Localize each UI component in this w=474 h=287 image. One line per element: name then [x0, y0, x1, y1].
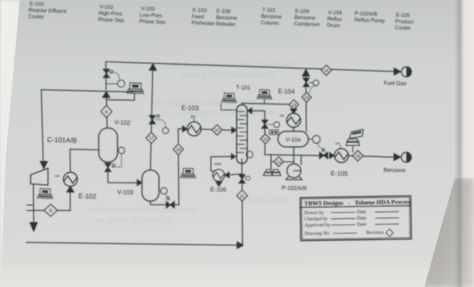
svg-text:Date: Date: [357, 223, 366, 228]
vessel V-102: [99, 128, 118, 162]
instrument circle on reflux valve: [274, 122, 280, 128]
wire: reboiler draw line from bottoms riser to E-106: [229, 174, 242, 175]
symbol: benzene off-page connector circle: [401, 152, 411, 162]
instrument circle at bottoms valve: [246, 176, 250, 180]
svg-text:V-103: V-103: [117, 189, 134, 196]
svg-text:E-103: E-103: [181, 105, 199, 113]
svg-text:Checked by: Checked by: [304, 217, 328, 222]
wire: V-103 overhead riser to fuel gas line: [150, 70, 152, 170]
instrument circle at V-104 right end: [312, 135, 320, 143]
svg-text:mps: mps: [214, 162, 221, 166]
node: arrow into E-106: [225, 172, 230, 178]
valve on benzene product line: [320, 152, 328, 158]
svg-text:Drawing No.: Drawing No.: [305, 232, 331, 237]
column T-101 trays: [237, 112, 248, 153]
console icon above E-105: [346, 129, 363, 152]
wire: diamond 9 to E-102 inlet: [57, 192, 70, 211]
wire: E-105 outlet to benzene off-page: [348, 156, 393, 157]
svg-text:Preheater: Preheater: [191, 20, 215, 27]
svg-text:lps: lps: [191, 114, 196, 118]
svg-text:17: 17: [149, 136, 154, 141]
node: arrow joining fuel gas header from V-104: [302, 69, 310, 76]
svg-text:E-104: E-104: [278, 88, 296, 96]
node: benzene off-page arrow: [394, 153, 401, 161]
svg-text:Condenser: Condenser: [294, 21, 320, 28]
console icon on overhead line: [257, 89, 272, 99]
compressor C-101A/B body: [31, 168, 48, 185]
wire: recycle gas header line A from V-102 top to compressor: [41, 90, 133, 162]
console icon left above column: [222, 93, 237, 103]
heat exchanger E-104: [287, 113, 301, 127]
svg-text:12: 12: [263, 137, 268, 142]
node: arrow down into E-104: [290, 109, 297, 114]
svg-text:14: 14: [276, 159, 281, 164]
wire: stub down to drivers: [270, 155, 272, 169]
valve on V-103 bottoms: [166, 202, 174, 208]
svg-text:19: 19: [304, 95, 309, 100]
valve PCV on line A vertical: [103, 69, 109, 77]
diamond stream 9: [44, 204, 57, 216]
wire: E-102 outlet up and right into V-102: [70, 149, 99, 172]
node: arrow into V-103 inlet: [137, 180, 142, 187]
svg-text:Fuel Gas: Fuel Gas: [384, 81, 407, 87]
console icon near V-103 bottoms riser: [180, 168, 195, 178]
instrument circle on riser valve: [163, 128, 169, 134]
svg-text:Date: Date: [357, 216, 366, 221]
column T-101 shell: [237, 105, 248, 164]
svg-text:16: 16: [324, 68, 329, 73]
svg-text:V-102: V-102: [114, 119, 131, 127]
wire: V-103 bottoms to riser junction: [150, 201, 178, 205]
vessel V-103: [142, 170, 159, 201]
svg-text:V-104: V-104: [286, 137, 301, 143]
wire: diamond 14 link line: [271, 161, 294, 163]
console icon under compressor: [37, 189, 53, 199]
svg-text:Cooler: Cooler: [28, 14, 44, 21]
diamond stream 15: [353, 151, 364, 162]
node: off-page arrow down bottom-left: [30, 222, 38, 231]
symbol: driver trapezoid pair under reflux line: [263, 170, 281, 176]
wire: line into diamond 9 from left edge: [27, 209, 44, 211]
diamond stream 16: [321, 65, 331, 75]
svg-text:cw: cw: [280, 113, 285, 117]
svg-text:Reflux Pump: Reflux Pump: [354, 17, 385, 24]
svg-text:15: 15: [355, 154, 360, 159]
svg-text:Phase Sep.: Phase Sep.: [139, 19, 167, 26]
diamond stream 8: [101, 105, 112, 117]
svg-text:C-101A/B: C-101A/B: [47, 137, 77, 145]
heat exchanger reboiler E-106: [213, 169, 225, 181]
svg-text:Approved by: Approved by: [305, 223, 331, 228]
wire: branch line A to console stub: [106, 94, 134, 101]
wire: reboiler vapor return to column: [211, 157, 232, 172]
node: feed arrow into T-101: [232, 127, 237, 133]
small level gauge box left of V-104: [269, 130, 278, 135]
wire: feed riser through diamond 18 up to E-103: [178, 129, 183, 205]
heat exchanger E-103: [187, 122, 201, 136]
wire: V-102 top riser through diamond 8: [105, 98, 108, 129]
svg-text:Feed: Feed: [192, 14, 204, 20]
svg-text:cw: cw: [335, 141, 340, 145]
valve on V-104 vapor riser: [303, 78, 309, 86]
wire: V-102 bottoms line: [108, 162, 137, 183]
node: arrow into E-103: [182, 126, 187, 132]
wire: toluene recycle down and along bottom: [27, 201, 243, 245]
svg-text:Phase Sep.: Phase Sep.: [98, 17, 126, 24]
instrument circle on vapor riser valve: [313, 80, 319, 86]
svg-text:8: 8: [105, 109, 108, 114]
instrument signal dashes valve to circle: [110, 72, 120, 80]
drum V-104: [278, 131, 308, 147]
heat exchanger E-105: [334, 149, 348, 163]
wire: left console elbow to column top: [221, 104, 237, 110]
svg-text:E-105: E-105: [331, 170, 349, 177]
console DCS icon on line A: [127, 83, 144, 94]
wire: compressor discharge down to off-page arrow: [32, 184, 34, 222]
svg-text:E-102: E-102: [78, 193, 96, 200]
svg-text:Revision: Revision: [366, 231, 384, 236]
node: arrow joining fuel gas header: [149, 63, 157, 70]
svg-text:E-106: E-106: [210, 187, 227, 193]
wire: column overhead line to E-104: [242, 103, 289, 104]
node: inlet arrow into compressor: [40, 161, 48, 169]
diamond stream 18: [173, 144, 183, 155]
svg-text:P-102A/B: P-102A/B: [281, 186, 306, 193]
header equipment labels: [28, 1, 414, 32]
diamond stream 12: [260, 134, 270, 144]
valve on V-102 bottoms: [105, 163, 111, 171]
svg-text:11: 11: [240, 193, 245, 198]
node: small arrow below E-106: [216, 182, 223, 187]
instrument circle LC on V-103: [161, 188, 167, 194]
wire: pump discharge riser: [300, 155, 302, 164]
wire: reflux line from riser to column: [252, 111, 265, 155]
diamond stream 10: [212, 125, 222, 135]
instrument circle LC on V-102: [118, 147, 124, 153]
wire: E-103 outlet to column feed: [201, 129, 232, 130]
wire: column bottoms down through valve to diamond 11: [241, 159, 243, 191]
svg-text:cw: cw: [55, 174, 60, 178]
wire: stub left of compressor discharge: [27, 204, 34, 206]
node: reflux arrow into column top right: [247, 108, 252, 114]
node: arrow of reboiler return into column: [231, 154, 236, 160]
node: fuel gas off-page arrow: [394, 68, 401, 76]
node: arrow up into E-102: [67, 186, 75, 192]
svg-text:Drawn by: Drawn by: [304, 211, 324, 216]
wire: E-104 outlet into V-104: [293, 127, 295, 131]
valve on V-103 overhead riser: [149, 116, 155, 124]
node: arrowhead at bottom line right end: [237, 242, 244, 249]
svg-text:10: 10: [215, 128, 220, 133]
diamond stream 11: [237, 190, 248, 201]
diamond stream 17: [146, 132, 157, 143]
svg-text:18: 18: [176, 147, 181, 152]
heat exchanger E-102: [63, 172, 77, 186]
svg-text:Reboiler: Reboiler: [216, 21, 236, 28]
wire: line A vertical through valve: [105, 62, 107, 90]
svg-text:Cooler: Cooler: [395, 25, 411, 32]
svg-text:13: 13: [291, 102, 296, 107]
svg-text:Drum: Drum: [327, 23, 341, 29]
wire: V-104 bottoms to pump P-102 suction: [293, 147, 295, 164]
svg-text:Column: Column: [261, 20, 280, 27]
wire: product line from reflux junction to E-105: [265, 155, 320, 156]
diamond stream 13: [289, 100, 299, 110]
valve on column bottoms: [239, 175, 245, 183]
wire: V-104 vapor riser to fuel gas header: [305, 76, 307, 132]
node: arrow joining line A from V-102: [102, 91, 110, 98]
diamond stream 14: [274, 157, 284, 167]
node: arrow into E-105: [329, 152, 334, 158]
svg-text:T-101: T-101: [236, 85, 251, 91]
instrument dashes V-103 LC to bottoms valve: [166, 194, 170, 201]
valve on reflux riser: [262, 120, 268, 128]
wire: console stub to overhead line: [263, 99, 265, 104]
wire: fuel gas header line B: [106, 62, 398, 72]
svg-text:9: 9: [49, 208, 52, 214]
instrument circle PIC near line A valve: [118, 80, 125, 87]
diamond stream 19: [302, 92, 312, 102]
svg-text:Benzene: Benzene: [383, 168, 405, 174]
pump P-102A/B: [286, 164, 302, 180]
title block: [300, 196, 412, 241]
instrument circle at column base right: [246, 151, 253, 158]
symbol: fuel gas off-page connector circle: [401, 67, 411, 77]
svg-text:Date: Date: [357, 210, 366, 215]
instrument dashes V-102 LC to bottoms valve: [112, 154, 122, 167]
